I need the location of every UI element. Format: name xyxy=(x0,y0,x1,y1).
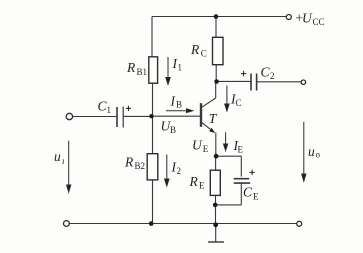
svg-text:C: C xyxy=(236,98,242,108)
svg-text:E: E xyxy=(253,191,259,201)
svg-text:C: C xyxy=(243,185,253,200)
svg-text:u: u xyxy=(54,149,61,164)
svg-text:R: R xyxy=(126,60,136,75)
svg-text:ı: ı xyxy=(62,156,65,166)
svg-text:U: U xyxy=(302,11,313,26)
svg-text:o: o xyxy=(316,150,321,160)
svg-text:u: u xyxy=(308,144,315,159)
svg-text:R: R xyxy=(124,155,134,170)
svg-text:1: 1 xyxy=(107,105,112,115)
svg-text:R: R xyxy=(190,42,200,57)
svg-text:U: U xyxy=(192,138,203,153)
svg-text:C: C xyxy=(201,49,207,59)
svg-text:E: E xyxy=(203,144,209,154)
svg-text:2: 2 xyxy=(270,71,275,81)
svg-text:CC: CC xyxy=(313,17,325,27)
svg-text:E: E xyxy=(199,181,205,191)
svg-text:R: R xyxy=(189,174,199,189)
svg-text:E: E xyxy=(238,144,244,154)
svg-text:B: B xyxy=(176,100,182,110)
svg-text:1: 1 xyxy=(178,63,183,73)
svg-text:B2: B2 xyxy=(135,161,146,171)
svg-text:C: C xyxy=(261,65,271,80)
svg-text:T: T xyxy=(209,111,218,126)
svg-text:B1: B1 xyxy=(137,67,148,77)
svg-text:2: 2 xyxy=(177,166,182,176)
svg-text:B: B xyxy=(170,125,176,135)
